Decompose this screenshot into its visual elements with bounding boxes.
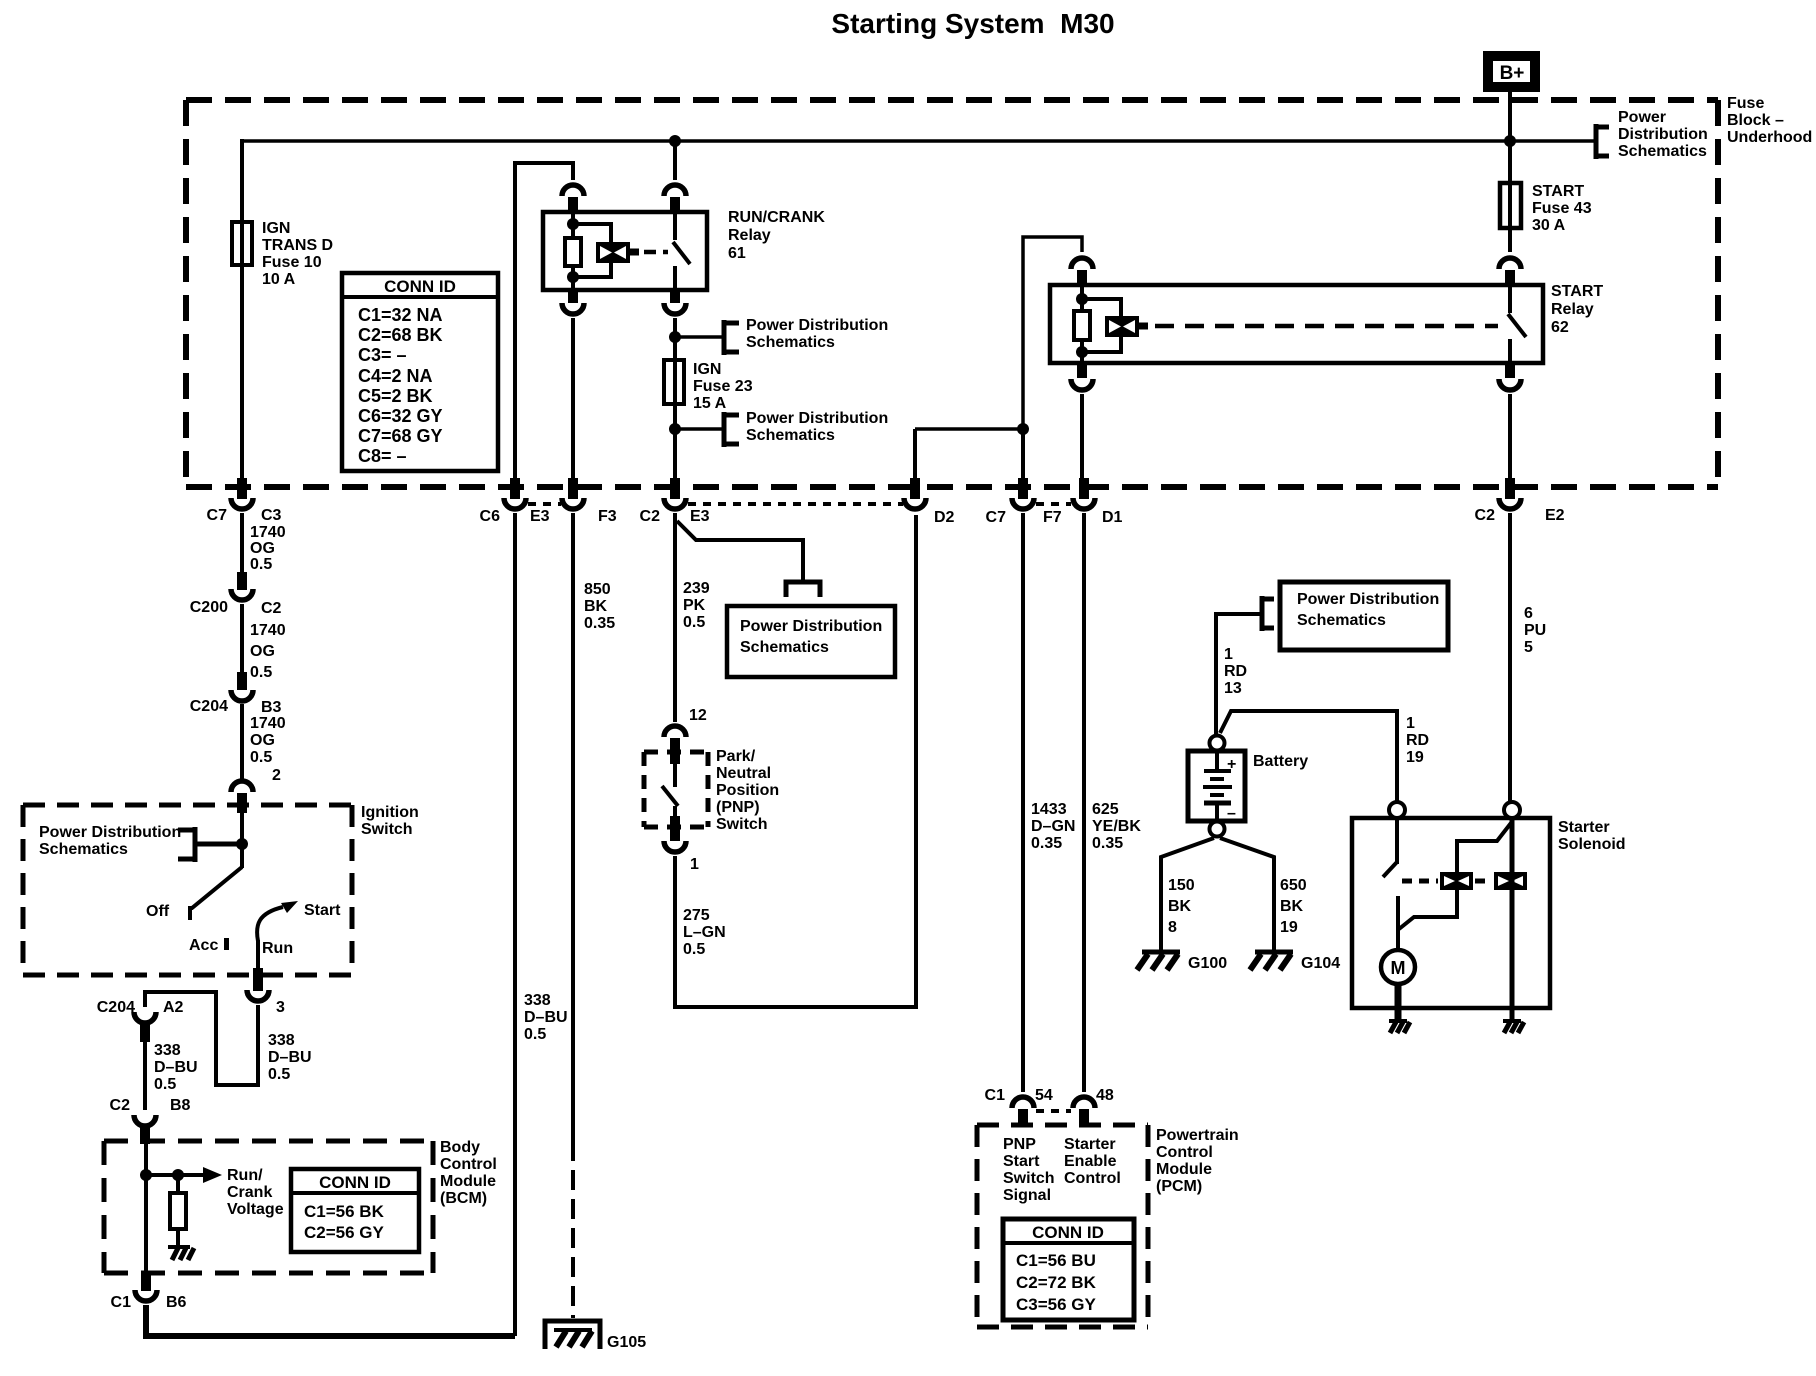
svg-text:Park/: Park/ (716, 748, 756, 765)
relay 61 coil wire (571, 212, 575, 290)
svg-text:Switch: Switch (716, 816, 768, 833)
svg-text:Underhood: Underhood (1727, 129, 1812, 146)
svg-text:C204: C204 (190, 698, 228, 715)
svg-text:Voltage: Voltage (227, 1201, 284, 1218)
wire switch to ign fuse 23 (673, 318, 677, 480)
svg-text:C2=68 BK: C2=68 BK (358, 325, 443, 345)
svg-text:–: – (1227, 805, 1236, 822)
svg-text:1: 1 (690, 856, 699, 873)
wire B+ vertical into fuse block (1508, 87, 1512, 183)
svg-text:D–BU: D–BU (154, 1059, 198, 1076)
svg-text:B+: B+ (1500, 63, 1525, 84)
svg-text:Switch: Switch (361, 821, 413, 838)
relay 61 coil bypass loop (573, 224, 611, 242)
svg-text:Ignition: Ignition (361, 804, 419, 821)
solenoid terminal right (1504, 802, 1520, 818)
pin stub below relay coil (568, 290, 578, 303)
svg-text:(BCM): (BCM) (440, 1190, 487, 1207)
node ignition junction (236, 838, 248, 850)
switch relay 61 (673, 212, 690, 290)
arrow run/crank voltage (146, 1167, 222, 1183)
svg-text:PK: PK (683, 597, 706, 614)
svg-text:C2=72 BK: C2=72 BK (1016, 1273, 1097, 1292)
svg-text:19: 19 (1406, 749, 1424, 766)
wire ignition feed (240, 813, 244, 868)
dotted link C6 E3 to F3 (528, 502, 561, 506)
svg-text:Battery: Battery (1253, 753, 1308, 770)
label power distribution schematics upper middle (746, 317, 888, 351)
svg-text:D1: D1 (1102, 509, 1123, 526)
switch blade ignition to Off (190, 867, 242, 920)
svg-text:Schematics: Schematics (740, 639, 829, 656)
svg-text:Power Distribution: Power Distribution (39, 824, 181, 841)
wire BCM internal vertical (144, 1142, 148, 1273)
label wire 1 RD 19 (1406, 715, 1429, 766)
svg-text:Start: Start (1003, 1153, 1040, 1170)
svg-text:0.5: 0.5 (250, 664, 272, 681)
svg-text:0.5: 0.5 (524, 1026, 546, 1043)
svg-text:C6=32 GY: C6=32 GY (358, 406, 443, 426)
solenoid right vertical through xbox (1510, 818, 1515, 1020)
svg-text:OG: OG (250, 732, 275, 749)
svg-text:13: 13 (1224, 680, 1242, 697)
battery positive terminal (1210, 736, 1225, 751)
connector arc below relay 62 coil (1071, 379, 1093, 390)
svg-text:C2=56 GY: C2=56 GY (304, 1223, 385, 1242)
svg-text:E3: E3 (530, 508, 550, 525)
svg-text:Relay: Relay (1551, 301, 1594, 318)
svg-text:C7: C7 (986, 509, 1007, 526)
svg-text:2: 2 (272, 767, 281, 784)
svg-text:(PNP): (PNP) (716, 799, 760, 816)
svg-text:150: 150 (1168, 877, 1195, 894)
wire B3 segment (240, 704, 244, 780)
wire 1 RD 19 (1220, 711, 1397, 801)
label power distribution schematics top right (1618, 109, 1708, 160)
svg-text:CONN ID: CONN ID (384, 277, 456, 296)
svg-text:RD: RD (1224, 663, 1247, 680)
pin stub out of PNP switch (670, 816, 680, 841)
svg-text:Power Distribution: Power Distribution (740, 618, 882, 635)
connector arc into ignition switch (231, 781, 253, 792)
fuse block underhood dashed box (186, 100, 1718, 487)
battery negative terminal (1210, 822, 1225, 837)
off-page bracket PDS battery (1260, 596, 1274, 631)
svg-text:Schematics: Schematics (39, 841, 128, 858)
wire bus to power distribution bracket (1510, 139, 1596, 143)
connector C200 (190, 572, 282, 617)
off-page bracket PDS lower middle (722, 412, 739, 447)
connector arc below PNP switch (664, 841, 686, 852)
connector arc PCM pin 48 (1073, 1097, 1095, 1108)
svg-text:D–GN: D–GN (1031, 818, 1075, 835)
box power distribution schematics battery (1280, 582, 1448, 650)
svg-text:C1=56 BU: C1=56 BU (1016, 1251, 1096, 1270)
svg-text:YE/BK: YE/BK (1092, 818, 1141, 835)
connector C2/B8 (110, 1097, 191, 1144)
wire BCM B6 to bottom run (146, 1305, 515, 1336)
wire run contact down (256, 940, 260, 972)
pin stub PCM 54 (1018, 1109, 1028, 1126)
wire F3 dashed section (571, 1141, 575, 1318)
label power distribution schematics lower middle (746, 410, 888, 444)
svg-text:Power Distribution: Power Distribution (746, 317, 888, 334)
svg-text:C3=56 GY: C3=56 GY (1016, 1295, 1097, 1314)
solenoid X-box left (1440, 872, 1473, 890)
label wire 1 RD 13 (1224, 646, 1247, 697)
label wire 239 PK 0.5 (683, 580, 710, 631)
pin stub PCM 48 (1079, 1109, 1089, 1126)
svg-text:M: M (1391, 958, 1406, 978)
connector arc below relay 62 switch (1499, 379, 1521, 390)
svg-text:Power Distribution: Power Distribution (746, 410, 888, 427)
BCM dashed box (104, 1141, 433, 1273)
svg-text:10 A: 10 A (262, 271, 296, 288)
pin stub into relay switch (670, 197, 680, 212)
connector C7/F7 (986, 478, 1062, 526)
svg-text:C200: C200 (190, 599, 228, 616)
svg-text:Control: Control (1064, 1170, 1121, 1187)
svg-text:Neutral: Neutral (716, 765, 771, 782)
svg-text:12: 12 (689, 707, 707, 724)
svg-text:F3: F3 (598, 508, 617, 525)
svg-text:START: START (1532, 183, 1584, 200)
wire PDS bracket to ignition node (195, 842, 242, 847)
battery box (1188, 751, 1245, 821)
resistor relay 61 coil (565, 238, 581, 266)
solenoid X-box right (1494, 872, 1527, 890)
fuse IGN Fuse 23 15A (664, 360, 753, 412)
label wire 850 BK 0.35 (584, 581, 615, 632)
svg-text:Relay: Relay (728, 227, 771, 244)
connector arc PCM pin 54 (1012, 1097, 1034, 1108)
wire battery ground split left (1161, 838, 1214, 950)
svg-text:G100: G100 (1188, 955, 1227, 972)
svg-text:D2: D2 (934, 509, 955, 526)
dotted link F7 to D1 (1036, 502, 1071, 506)
label Powertrain Control Module PCM (1156, 1127, 1239, 1195)
node BCM junction 2 (172, 1169, 184, 1181)
CONN ID table BCM (291, 1169, 419, 1252)
motor M starter (1381, 950, 1415, 984)
switch relay 62 (1508, 285, 1526, 363)
svg-text:275: 275 (683, 907, 710, 924)
dotted link PCM 54 48 (1036, 1109, 1071, 1113)
svg-text:15 A: 15 A (693, 395, 727, 412)
solenoid control switch (1383, 818, 1398, 951)
relay RUN/CRANK 61 box (543, 212, 707, 290)
svg-text:48: 48 (1096, 1087, 1114, 1104)
svg-text:3: 3 (276, 999, 285, 1016)
wire START relay switch drop from fuse (1508, 228, 1512, 252)
svg-text:Module: Module (1156, 1161, 1212, 1178)
wire C6 column down (513, 513, 517, 1336)
ground G104 (1250, 952, 1340, 972)
svg-text:C2: C2 (261, 600, 282, 617)
svg-text:Control: Control (440, 1156, 497, 1173)
svg-text:0.5: 0.5 (268, 1066, 290, 1083)
wire D1 down to PCM (1082, 513, 1086, 1092)
wire A2 to C2 B8 (143, 1040, 147, 1110)
PNP switch contacts (662, 764, 678, 817)
svg-text:1740: 1740 (250, 715, 286, 732)
connector F3 (562, 478, 617, 525)
svg-text:+: + (1227, 756, 1236, 773)
svg-text:Starter: Starter (1064, 1136, 1116, 1153)
svg-text:239: 239 (683, 580, 710, 597)
relay 62 coil wire (1080, 285, 1084, 363)
svg-text:338: 338 (154, 1042, 181, 1059)
svg-text:C7=68 GY: C7=68 GY (358, 426, 443, 446)
fuse START Fuse 43 30A (1500, 183, 1592, 252)
svg-text:B6: B6 (166, 1294, 187, 1311)
svg-text:F7: F7 (1043, 509, 1062, 526)
svg-text:E2: E2 (1545, 507, 1565, 524)
svg-text:B8: B8 (170, 1097, 191, 1114)
B+ power terminal (1488, 56, 1535, 87)
relay START 62 box (1050, 285, 1543, 363)
svg-text:338: 338 (268, 1032, 295, 1049)
svg-text:Acc: Acc (189, 937, 218, 954)
svg-text:C1: C1 (985, 1087, 1006, 1104)
connector D1 (1073, 478, 1123, 526)
PNP switch dashed box (644, 752, 708, 827)
svg-text:C204: C204 (97, 999, 135, 1016)
label wire 1740 OG 0.5 2 lower (250, 715, 286, 784)
ignition switch dashed box (23, 805, 352, 975)
svg-text:Run: Run (262, 940, 293, 957)
label wire 338 D-BU 0.5 bottom (524, 992, 568, 1043)
svg-text:G104: G104 (1301, 955, 1340, 972)
wire coil to F3 (571, 318, 575, 480)
CONN ID table fuse block (342, 273, 498, 471)
svg-text:Schematics: Schematics (1618, 143, 1707, 160)
svg-text:30 A: 30 A (1532, 217, 1566, 234)
solenoid path xbox to motor (1399, 890, 1457, 929)
svg-text:D–BU: D–BU (524, 1009, 568, 1026)
svg-text:C2: C2 (640, 508, 661, 525)
pin stub below relay switch (670, 290, 680, 303)
svg-text:Control: Control (1156, 1144, 1213, 1161)
svg-text:Starter: Starter (1558, 819, 1610, 836)
svg-text:Schematics: Schematics (746, 334, 835, 351)
pin stub into relay 62 coil (1077, 270, 1087, 285)
svg-text:61: 61 (728, 245, 746, 262)
pin stub into PNP switch (670, 738, 680, 764)
wire relay 62 switch to C2 E2 (1508, 394, 1512, 480)
svg-text:0.5: 0.5 (154, 1076, 176, 1093)
svg-text:1433: 1433 (1031, 801, 1067, 818)
svg-text:RUN/CRANK: RUN/CRANK (728, 209, 825, 226)
label wire 650 BK 19 (1280, 877, 1307, 936)
wire C7 F7 down to PCM (1021, 513, 1025, 1092)
node coil top (567, 218, 579, 230)
connector C204 (190, 672, 282, 716)
connector arc below relay coil (562, 303, 584, 314)
pin stub into relay 62 switch (1505, 270, 1515, 285)
pin stub below relay 62 coil (1077, 363, 1087, 378)
svg-text:D–BU: D–BU (268, 1049, 312, 1066)
svg-text:1: 1 (1406, 715, 1415, 732)
svg-text:OG: OG (250, 540, 275, 557)
svg-text:C8= –: C8= – (358, 446, 407, 466)
svg-text:OG: OG (250, 643, 275, 660)
svg-text:Fuse 10: Fuse 10 (262, 254, 322, 271)
svg-text:Power: Power (1618, 109, 1666, 126)
pin stub into relay coil (568, 197, 578, 212)
wire battery ground split right (1220, 838, 1274, 950)
label wire 150 BK 8 (1168, 877, 1195, 936)
off-page bracket power distribution top right (1594, 124, 1609, 159)
connector C2/E2 (1475, 478, 1565, 524)
svg-text:BK: BK (1280, 898, 1304, 915)
label wire 6 PU 5 (1524, 605, 1546, 656)
svg-text:C7: C7 (207, 507, 228, 524)
label Park/ Neutral Position PNP Switch (716, 748, 779, 833)
svg-text:C4=2 NA: C4=2 NA (358, 366, 433, 386)
svg-text:C1=56 BK: C1=56 BK (304, 1202, 385, 1221)
label RUN/CRANK Relay 61 (728, 209, 825, 262)
node relay 62 coil feed junction (1017, 423, 1029, 435)
svg-text:G105: G105 (607, 1334, 646, 1351)
node coil bottom relay 62 (1076, 346, 1088, 358)
connector arc below relay switch (664, 303, 686, 314)
svg-text:A2: A2 (163, 999, 184, 1016)
dashed actuator link solenoid 2 (1475, 879, 1492, 884)
svg-text:Power Distribution: Power Distribution (1297, 591, 1439, 608)
svg-text:Solenoid: Solenoid (1558, 836, 1626, 853)
node junction B+ bus (1504, 135, 1516, 147)
svg-text:Switch: Switch (1003, 1170, 1055, 1187)
dashed actuator link relay 62 (1155, 324, 1498, 329)
svg-text:0.5: 0.5 (683, 941, 705, 958)
svg-text:B3: B3 (261, 699, 282, 716)
svg-text:L–GN: L–GN (683, 924, 726, 941)
wire junction to C7 F7 (1021, 429, 1025, 480)
label wire 1433 D-GN 0.35 (1031, 801, 1075, 852)
svg-text:850: 850 (584, 581, 611, 598)
label Starter Enable Control (1064, 1136, 1121, 1187)
svg-text:PU: PU (1524, 622, 1546, 639)
node junction run/crank branch (669, 135, 681, 147)
svg-text:Run/: Run/ (227, 1167, 263, 1184)
svg-text:Body: Body (440, 1139, 480, 1156)
solenoid terminal left (1389, 802, 1405, 818)
dashed actuator link solenoid (1402, 879, 1438, 884)
svg-text:C2: C2 (110, 1097, 131, 1114)
svg-text:8: 8 (1168, 919, 1177, 936)
svg-text:(PCM): (PCM) (1156, 1178, 1202, 1195)
svg-text:C3= –: C3= – (358, 345, 407, 365)
wire junction to D2 link (915, 427, 1023, 431)
svg-text:IGN: IGN (262, 220, 290, 237)
label Acc I (189, 937, 229, 954)
resistor relay 62 coil (1074, 311, 1090, 340)
label C1 54 48 (985, 1087, 1114, 1104)
svg-text:Block –: Block – (1727, 112, 1784, 129)
ground starter motor (1389, 1021, 1410, 1033)
svg-text:338: 338 (524, 992, 551, 1009)
node branch to PDS lower (669, 423, 681, 435)
pin stub below relay 62 switch (1505, 363, 1515, 378)
svg-text:C1: C1 (111, 1294, 132, 1311)
off-page bracket PDS pnp (786, 582, 820, 597)
svg-text:CONN ID: CONN ID (1032, 1223, 1104, 1242)
ground solenoid contact (1503, 1021, 1524, 1033)
resistor BCM pulldown (170, 1175, 186, 1248)
svg-text:Position: Position (716, 782, 779, 799)
run-start curved arrow (257, 901, 298, 941)
wire left branch down from bus (240, 139, 244, 480)
label wire 625 YE/BK 0.35 (1092, 801, 1141, 852)
node branch to PDS upper (669, 331, 681, 343)
svg-text:Fuse 43: Fuse 43 (1532, 200, 1592, 217)
off-page bracket PDS upper middle (722, 320, 739, 355)
label Ignition Switch (361, 804, 419, 838)
svg-text:1740: 1740 (250, 524, 286, 541)
ground G105 (545, 1321, 646, 1351)
svg-text:650: 650 (1280, 877, 1307, 894)
svg-text:Enable: Enable (1064, 1153, 1117, 1170)
solenoid X-box relay 62 (1105, 316, 1148, 337)
connector C204/A2 (97, 999, 184, 1042)
svg-text:BK: BK (584, 598, 608, 615)
CONN ID table PCM (1003, 1219, 1134, 1320)
svg-text:TRANS D: TRANS D (262, 237, 333, 254)
wire D2 drop inside fuse block (913, 429, 917, 480)
svg-text:1: 1 (1224, 646, 1233, 663)
relay 62 coil bypass loop (1082, 299, 1121, 317)
svg-text:19: 19 (1280, 919, 1298, 936)
svg-text:0.5: 0.5 (250, 556, 272, 573)
connector arc into PNP switch (664, 726, 686, 737)
svg-text:Distribution: Distribution (1618, 126, 1708, 143)
PCM dashed box (977, 1125, 1148, 1327)
battery cell plates (1203, 750, 1236, 822)
svg-text:E3: E3 (690, 508, 710, 525)
dashed actuator link relay 61 (644, 250, 668, 255)
svg-text:Start: Start (304, 902, 341, 919)
svg-text:625: 625 (1092, 801, 1119, 818)
pin stub out of ignition switch (253, 968, 263, 991)
ground G100 (1137, 952, 1227, 972)
pin stub into ignition switch (237, 793, 247, 813)
label Body Control Module BCM (440, 1139, 497, 1207)
wire relay 62 coil to D1 (1080, 394, 1084, 480)
connector C1/B6 (111, 1272, 187, 1311)
wire to PDS bracket upper (675, 335, 724, 339)
svg-text:C2: C2 (1475, 507, 1496, 524)
solenoid X-box relay 61 (596, 242, 639, 263)
svg-text:6: 6 (1524, 605, 1533, 622)
svg-text:Starting System M30: Starting System M30 (831, 8, 1114, 39)
connector arc above relay switch (664, 185, 686, 196)
wire branch diagonal to PDS pnp (677, 521, 803, 582)
svg-text:5: 5 (1524, 639, 1533, 656)
svg-text:Crank: Crank (227, 1184, 272, 1201)
svg-text:Fuse: Fuse (1727, 95, 1764, 112)
node BCM junction 1 (140, 1169, 152, 1181)
wire 1 RD 13 (1216, 614, 1262, 735)
wire START relay coil feed (1023, 237, 1082, 429)
box power distribution schematics pnp (727, 606, 895, 677)
label Fuse Block - Underhood (1727, 95, 1812, 146)
wire C6 drop inside fuse block (513, 161, 517, 480)
svg-text:BK: BK (1168, 898, 1192, 915)
connector arc above relay 62 coil (1071, 258, 1093, 269)
connector D2 (904, 478, 955, 526)
svg-text:Powertrain: Powertrain (1156, 1127, 1239, 1144)
